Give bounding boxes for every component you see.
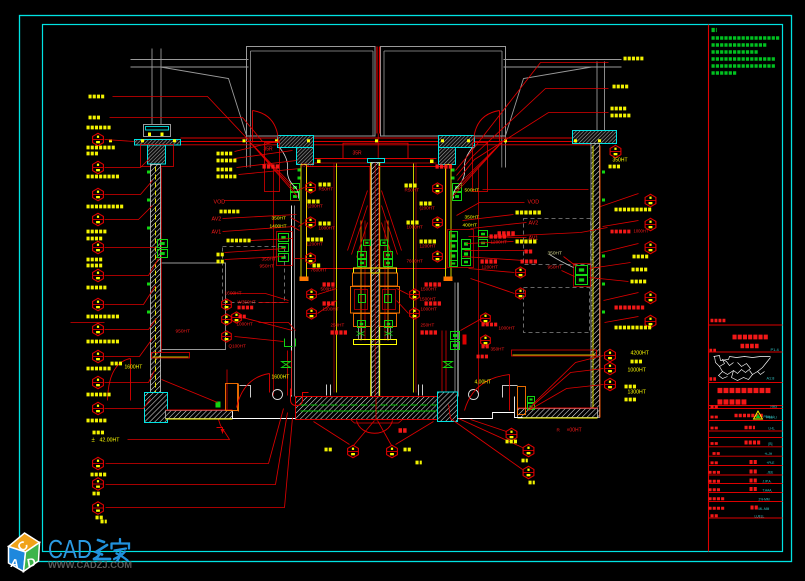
- title block row line: [711, 319, 727, 323]
- svg-text:35R: 35R: [264, 147, 274, 153]
- yellow connector dots on band: [109, 139, 112, 142]
- ceiling mirror panel right: [381, 47, 506, 137]
- svg-text:7600HT: 7600HT: [407, 259, 424, 264]
- leader line w40: [471, 420, 507, 432]
- ceiling center mullion red: [376, 47, 378, 134]
- wall right hatched: [591, 144, 600, 418]
- leader line w28: [225, 257, 284, 260]
- wall pin marks: [147, 171, 150, 174]
- svg-text:R50HT: R50HT: [405, 188, 420, 193]
- svg-text:1600HT: 1600HT: [225, 291, 242, 297]
- leader line w11: [113, 97, 249, 141]
- section X mark left: [282, 362, 291, 368]
- svg-text:1200HT: 1200HT: [307, 242, 324, 247]
- floor step right: [515, 397, 523, 418]
- leader line w62: [231, 294, 289, 301]
- bulkhead stem red box: [141, 145, 174, 167]
- leader line w61: [235, 337, 284, 342]
- title block subtitle lines: [718, 388, 772, 393]
- svg-text:1300HT: 1300HT: [628, 390, 647, 396]
- sealant curve right: [550, 255, 574, 268]
- bulkhead box left inner: [278, 136, 314, 148]
- ceiling fold diagonal left: [161, 67, 247, 136]
- floor strip right: [518, 409, 598, 418]
- leader line w13: [249, 141, 292, 185]
- svg-text:950HT: 950HT: [176, 329, 190, 335]
- logo wordmark zhi: [94, 540, 110, 559]
- step lines left: [240, 386, 251, 398]
- leader line w21: [237, 161, 297, 168]
- svg-text:1600HT: 1600HT: [272, 375, 290, 381]
- svg-text:1200HT: 1200HT: [420, 244, 437, 249]
- counter bar top yellow: [354, 268, 397, 273]
- svg-text:+PLE: +PLE: [767, 461, 775, 465]
- vanity kick left: [152, 353, 190, 359]
- leader line w9: [105, 371, 155, 383]
- leader line w16: [459, 141, 504, 185]
- svg-text:350HT: 350HT: [548, 251, 562, 257]
- door frame vertical bottom-left: [226, 370, 228, 410]
- bulkhead post left outer gray: [151, 49, 153, 125]
- leader line w12: [110, 118, 263, 142]
- cabinet legs right gray: [387, 327, 389, 340]
- leader line w32: [299, 223, 305, 227]
- svg-text:WWW.CADZJ.COM: WWW.CADZJ.COM: [48, 560, 132, 570]
- leader line w77: [564, 257, 577, 267]
- drain marks green left: [285, 339, 296, 347]
- counter bar bottom yellow: [354, 340, 397, 345]
- leader line w43: [601, 194, 639, 207]
- leader line w72: [467, 242, 514, 244]
- leader line w23: [225, 200, 300, 202]
- leader line w46: [604, 293, 639, 301]
- leader line w5: [105, 259, 159, 276]
- cabinet face line left yellow: [336, 164, 338, 393]
- leader line w2: [105, 181, 153, 195]
- leader line w48: [533, 356, 604, 405]
- socket cluster right mid: [448, 230, 474, 268]
- bulkhead flange left outer: [135, 140, 181, 146]
- svg-text:AV2: AV2: [529, 221, 539, 227]
- leader line w25: [223, 227, 295, 232]
- leader line w78: [562, 271, 575, 277]
- ceiling band line 2: [181, 141, 617, 143]
- svg-text:1200HT: 1200HT: [482, 265, 499, 270]
- ledge right of slab: [518, 387, 526, 415]
- leader line w76: [590, 278, 629, 282]
- section X mark right: [444, 362, 453, 368]
- grommet left: [273, 390, 283, 400]
- callout balloon right beam: [610, 145, 621, 157]
- callout balloons left column: [93, 133, 104, 145]
- vanity kick right: [512, 350, 597, 356]
- leader line w36: [106, 418, 293, 508]
- title block table: [709, 408, 783, 410]
- cabinet face line right yellow: [413, 164, 415, 393]
- svg-text:×00HT: ×00HT: [567, 428, 582, 434]
- svg-text:.JEE: .JEE: [767, 471, 774, 475]
- svg-text:+t-JH: +t-JH: [765, 452, 773, 456]
- wall socket pair mid: [364, 240, 371, 246]
- leader line w33: [295, 258, 305, 260]
- leader line w67: [498, 228, 608, 237]
- floor step left: [233, 412, 296, 419]
- ceiling fold diagonal right: [506, 67, 592, 136]
- wall left hatched: [151, 165, 161, 396]
- leader line w64: [471, 279, 515, 294]
- svg-text:VOD: VOD: [528, 200, 540, 206]
- cabinet stack left: [353, 273, 371, 286]
- floor box bottom-left: [145, 393, 168, 423]
- ledge left of slab: [226, 384, 238, 411]
- callout balloons bottom-right: [506, 428, 517, 440]
- leader line w66: [461, 318, 484, 331]
- leader line w20: [235, 151, 293, 159]
- cabinet rail red left: [364, 221, 366, 341]
- mirror bevel lines right: [382, 191, 402, 251]
- leader line w71: [469, 237, 527, 238]
- leader line w73: [465, 250, 529, 252]
- cabinet back line right red: [478, 169, 480, 396]
- bulkhead box right inner: [439, 136, 475, 148]
- ceiling band line 1: [181, 137, 617, 139]
- svg-text:1000HT: 1000HT: [237, 322, 254, 327]
- svg-text:500HT: 500HT: [465, 188, 479, 194]
- leader line w34: [106, 409, 284, 464]
- leader line w39: [396, 422, 434, 445]
- leader line w50: [529, 385, 604, 411]
- svg-text:400HT: 400HT: [463, 223, 477, 229]
- bulkhead box right outer: [573, 131, 617, 144]
- bulkhead stem left outer: [148, 145, 166, 164]
- svg-text:A1:8: A1:8: [767, 377, 775, 381]
- ceiling mirror panel left: [247, 47, 376, 137]
- svg-text:35R: 35R: [353, 151, 363, 157]
- svg-text:1500HT: 1500HT: [420, 297, 437, 302]
- svg-text:ML-MM: ML-MM: [759, 507, 770, 511]
- leader line w54: [483, 189, 589, 191]
- leader line w63: [469, 269, 515, 273]
- grommet right: [469, 390, 479, 400]
- socket center-right lower: [385, 321, 393, 328]
- partition right white: [454, 283, 456, 397]
- cabinet side red pair left: [287, 351, 289, 396]
- svg-text:Q100HT: Q100HT: [229, 344, 247, 349]
- door jamb right gray: [505, 47, 507, 168]
- svg-text:1600HT: 1600HT: [125, 365, 143, 371]
- socket cluster left wall: [158, 240, 168, 248]
- drip arc under slab: [357, 421, 393, 434]
- callout balloons interior: [222, 299, 232, 310]
- svg-text:1500HT: 1500HT: [421, 287, 438, 292]
- svg-text:250HT: 250HT: [331, 323, 345, 328]
- svg-text:1200HT: 1200HT: [491, 240, 508, 245]
- title block drawing title: [733, 335, 769, 340]
- socket right slab: [528, 397, 535, 403]
- svg-text:P1.4: P1.4: [771, 347, 780, 352]
- bulkhead leg left inner: [297, 148, 314, 165]
- svg-text:LHL.: LHL.: [769, 427, 776, 431]
- leader line w31: [297, 188, 305, 191]
- cabinet rail orange left: [360, 221, 362, 341]
- bulkhead post right outer gray: [596, 62, 598, 131]
- door swing top-right: [499, 111, 501, 143]
- leader line w1: [105, 159, 150, 168]
- leader line w59: [259, 302, 289, 304]
- title block note heading: [712, 28, 717, 32]
- leader line w29: [291, 218, 300, 223]
- faucet center-left: [358, 252, 367, 259]
- leader line w69: [463, 215, 514, 221]
- svg-text:AV1: AV1: [212, 230, 222, 236]
- slab front notch: [351, 420, 403, 424]
- title block divider line: [708, 25, 710, 552]
- callout balloons bottom-center: [348, 445, 359, 457]
- cabinet back line left red: [273, 169, 275, 396]
- leader line w75: [590, 263, 631, 269]
- leader line w15: [249, 141, 298, 197]
- leader line w58: [397, 301, 409, 314]
- title block cert triangle: [754, 411, 763, 419]
- mirror strip foot left: [300, 277, 309, 282]
- socket right wall: [574, 264, 591, 287]
- leader line w18: [453, 141, 504, 197]
- mirror strip foot right: [444, 277, 453, 282]
- floor socket left: [216, 402, 221, 408]
- mirror strip right yellow: [446, 165, 452, 281]
- counter slab hatched: [296, 397, 438, 420]
- svg-text:LUELL: LUELL: [755, 515, 765, 519]
- svg-text:VOD: VOD: [214, 200, 226, 206]
- leader line w70: [471, 223, 527, 229]
- leader line w24: [223, 215, 297, 219]
- door frame box right red: [473, 143, 488, 192]
- ceiling lines far-right: [504, 59, 622, 61]
- dashed cabinet outline right upper: [524, 219, 591, 265]
- leader line w37: [128, 420, 230, 440]
- svg-text:350HT: 350HT: [491, 347, 505, 352]
- svg-text:4,00HT: 4,00HT: [475, 380, 491, 386]
- ceiling lines far-left: [131, 59, 249, 61]
- mirror panel box left red: [307, 167, 371, 269]
- svg-text:250HT: 250HT: [421, 323, 435, 328]
- leader line w35: [106, 413, 288, 485]
- bulkhead hat left outer: [144, 125, 171, 137]
- leader line w53: [458, 113, 609, 181]
- leader line w41: [459, 419, 523, 448]
- leader line w17: [456, 141, 504, 191]
- mirror top red band: [315, 158, 437, 160]
- svg-text:1000HT: 1000HT: [628, 368, 647, 374]
- svg-text:AV2: AV2: [212, 217, 222, 223]
- niche box across center wall top: [343, 143, 408, 158]
- logo wordmark jia: [112, 539, 130, 561]
- leader line w45: [602, 244, 639, 253]
- vanity outline box left gray: [162, 263, 226, 350]
- leader line w26: [251, 239, 293, 241]
- cabinet side red pair right: [441, 331, 443, 392]
- red mark arrow bottom: [217, 428, 223, 434]
- title block location map: [714, 356, 771, 381]
- svg-text:[B]: [B]: [769, 442, 773, 446]
- cabinet legs left gray: [358, 327, 360, 340]
- socket left partition top: [291, 184, 300, 192]
- labels bottom-center: [325, 448, 333, 452]
- door swing bottom-left: [130, 359, 132, 401]
- leader line w8: [105, 339, 153, 357]
- leader line w51: [456, 63, 609, 171]
- leader line w42: [449, 405, 523, 470]
- leader line w44: [603, 221, 639, 227]
- svg-text:J.IP.A.: J.IP.A.: [763, 480, 772, 484]
- svg-text:W350HT: W350HT: [238, 300, 256, 305]
- svg-text:R50HT: R50HT: [319, 187, 334, 192]
- svg-text:PBU-LI: PBU-LI: [764, 415, 774, 419]
- floor strip left: [166, 411, 233, 419]
- leader line w19: [235, 141, 281, 152]
- labels bottom-right: [506, 440, 519, 444]
- svg-text:1000HT: 1000HT: [634, 229, 649, 234]
- svg-text:500HT: 500HT: [321, 287, 335, 292]
- leader line w80: [162, 380, 218, 403]
- dashed cabinet outline left: [223, 247, 285, 303]
- title block note text: [712, 36, 781, 39]
- partition left white: [291, 206, 293, 397]
- ceiling band line 3: [169, 144, 593, 146]
- cabinet rail red right: [384, 221, 386, 341]
- leader line w52: [457, 89, 609, 176]
- leader line w60: [259, 323, 296, 331]
- logo cube: [9, 533, 40, 572]
- socket center-left lower: [358, 321, 366, 328]
- svg-text:1000HT: 1000HT: [319, 226, 336, 231]
- cabinet rail orange right: [387, 221, 389, 341]
- leader line w0: [105, 140, 135, 142]
- svg-text:950HT: 950HT: [301, 163, 315, 168]
- leader line w38: [314, 422, 350, 445]
- socket cluster left mid: [277, 232, 293, 266]
- leader line w57: [397, 289, 409, 295]
- svg-text:950HT: 950HT: [548, 265, 562, 271]
- cabinet stack right: [380, 273, 398, 286]
- svg-text:4200HT: 4200HT: [631, 351, 650, 357]
- wall center cap cyan: [368, 159, 385, 163]
- svg-text:350HT: 350HT: [465, 215, 479, 221]
- mirror strip left yellow: [301, 165, 307, 281]
- leader line w14: [249, 141, 295, 191]
- callout balloons bottom-left: [93, 457, 104, 469]
- sealant curve left: [280, 148, 299, 199]
- svg-text:350HT: 350HT: [262, 257, 276, 263]
- dashed cabinet outline right lower: [524, 288, 590, 333]
- svg-text:1000HT: 1000HT: [407, 225, 424, 230]
- svg-text:1400HT: 1400HT: [270, 224, 287, 230]
- leader line w47: [605, 317, 639, 323]
- leader line w27: [225, 249, 286, 253]
- svg-text:1000HT: 1000HT: [499, 326, 516, 331]
- leader line w22: [239, 169, 301, 175]
- center wall lower leader: [375, 398, 377, 421]
- mirror bevel lines left: [348, 191, 368, 251]
- labels bottom-left: [91, 473, 108, 477]
- leader line w7: [105, 319, 157, 330]
- labels left column: [89, 95, 106, 99]
- small yellow M marks: [101, 520, 107, 524]
- leader line w56: [318, 301, 337, 314]
- leader line w3: [105, 206, 153, 220]
- bulkhead leg right inner: [439, 148, 456, 165]
- labels interior left: [217, 152, 234, 156]
- leader line w30: [291, 226, 300, 231]
- leader line w65: [243, 318, 293, 331]
- socket right partition top: [453, 184, 462, 192]
- wall center hatched: [372, 163, 380, 398]
- door swing top-left: [252, 111, 254, 143]
- leader line w79: [71, 322, 105, 324]
- socket cluster right wall upper: [479, 231, 488, 238]
- svg-text:HHX: HHX: [771, 405, 779, 409]
- callout balloons right column: [645, 194, 656, 206]
- svg-text:2%-MM: 2%-MM: [759, 498, 770, 502]
- step lines right: [503, 386, 518, 398]
- leader line w49: [531, 369, 604, 408]
- svg-text:T.AAA,: T.AAA,: [763, 489, 773, 493]
- door swing bottom-right: [509, 375, 511, 411]
- counter support left: [326, 385, 328, 396]
- labels right column: [624, 57, 645, 61]
- door frame box left red: [265, 143, 280, 192]
- svg-text:7600HT: 7600HT: [311, 268, 328, 273]
- counter support right: [418, 385, 420, 396]
- leader line w10: [105, 399, 151, 409]
- slab end box cyan: [438, 392, 458, 422]
- socket lower right: [451, 332, 460, 340]
- faucet center-right: [384, 252, 393, 259]
- svg-text:42.00HT: 42.00HT: [100, 438, 121, 444]
- door jamb left gray: [246, 47, 248, 168]
- svg-text:1000HT: 1000HT: [421, 307, 438, 312]
- svg-text:1100HT: 1100HT: [323, 307, 339, 312]
- svg-text:350HT: 350HT: [272, 216, 286, 222]
- svg-text:(200HT: (200HT: [308, 204, 324, 209]
- leader line w6: [105, 286, 156, 305]
- leader line w68: [457, 203, 525, 216]
- leader line w74: [463, 257, 524, 261]
- svg-text:350HT: 350HT: [613, 158, 628, 164]
- p-trap left: [291, 389, 309, 406]
- svg-text:950HT: 950HT: [260, 264, 274, 270]
- leader line w4: [105, 247, 156, 249]
- mirror panel box right red: [379, 167, 446, 269]
- leader line w55: [318, 289, 337, 295]
- svg-text:(200HT: (200HT: [420, 206, 436, 211]
- door swing bottom-left inner: [269, 374, 271, 393]
